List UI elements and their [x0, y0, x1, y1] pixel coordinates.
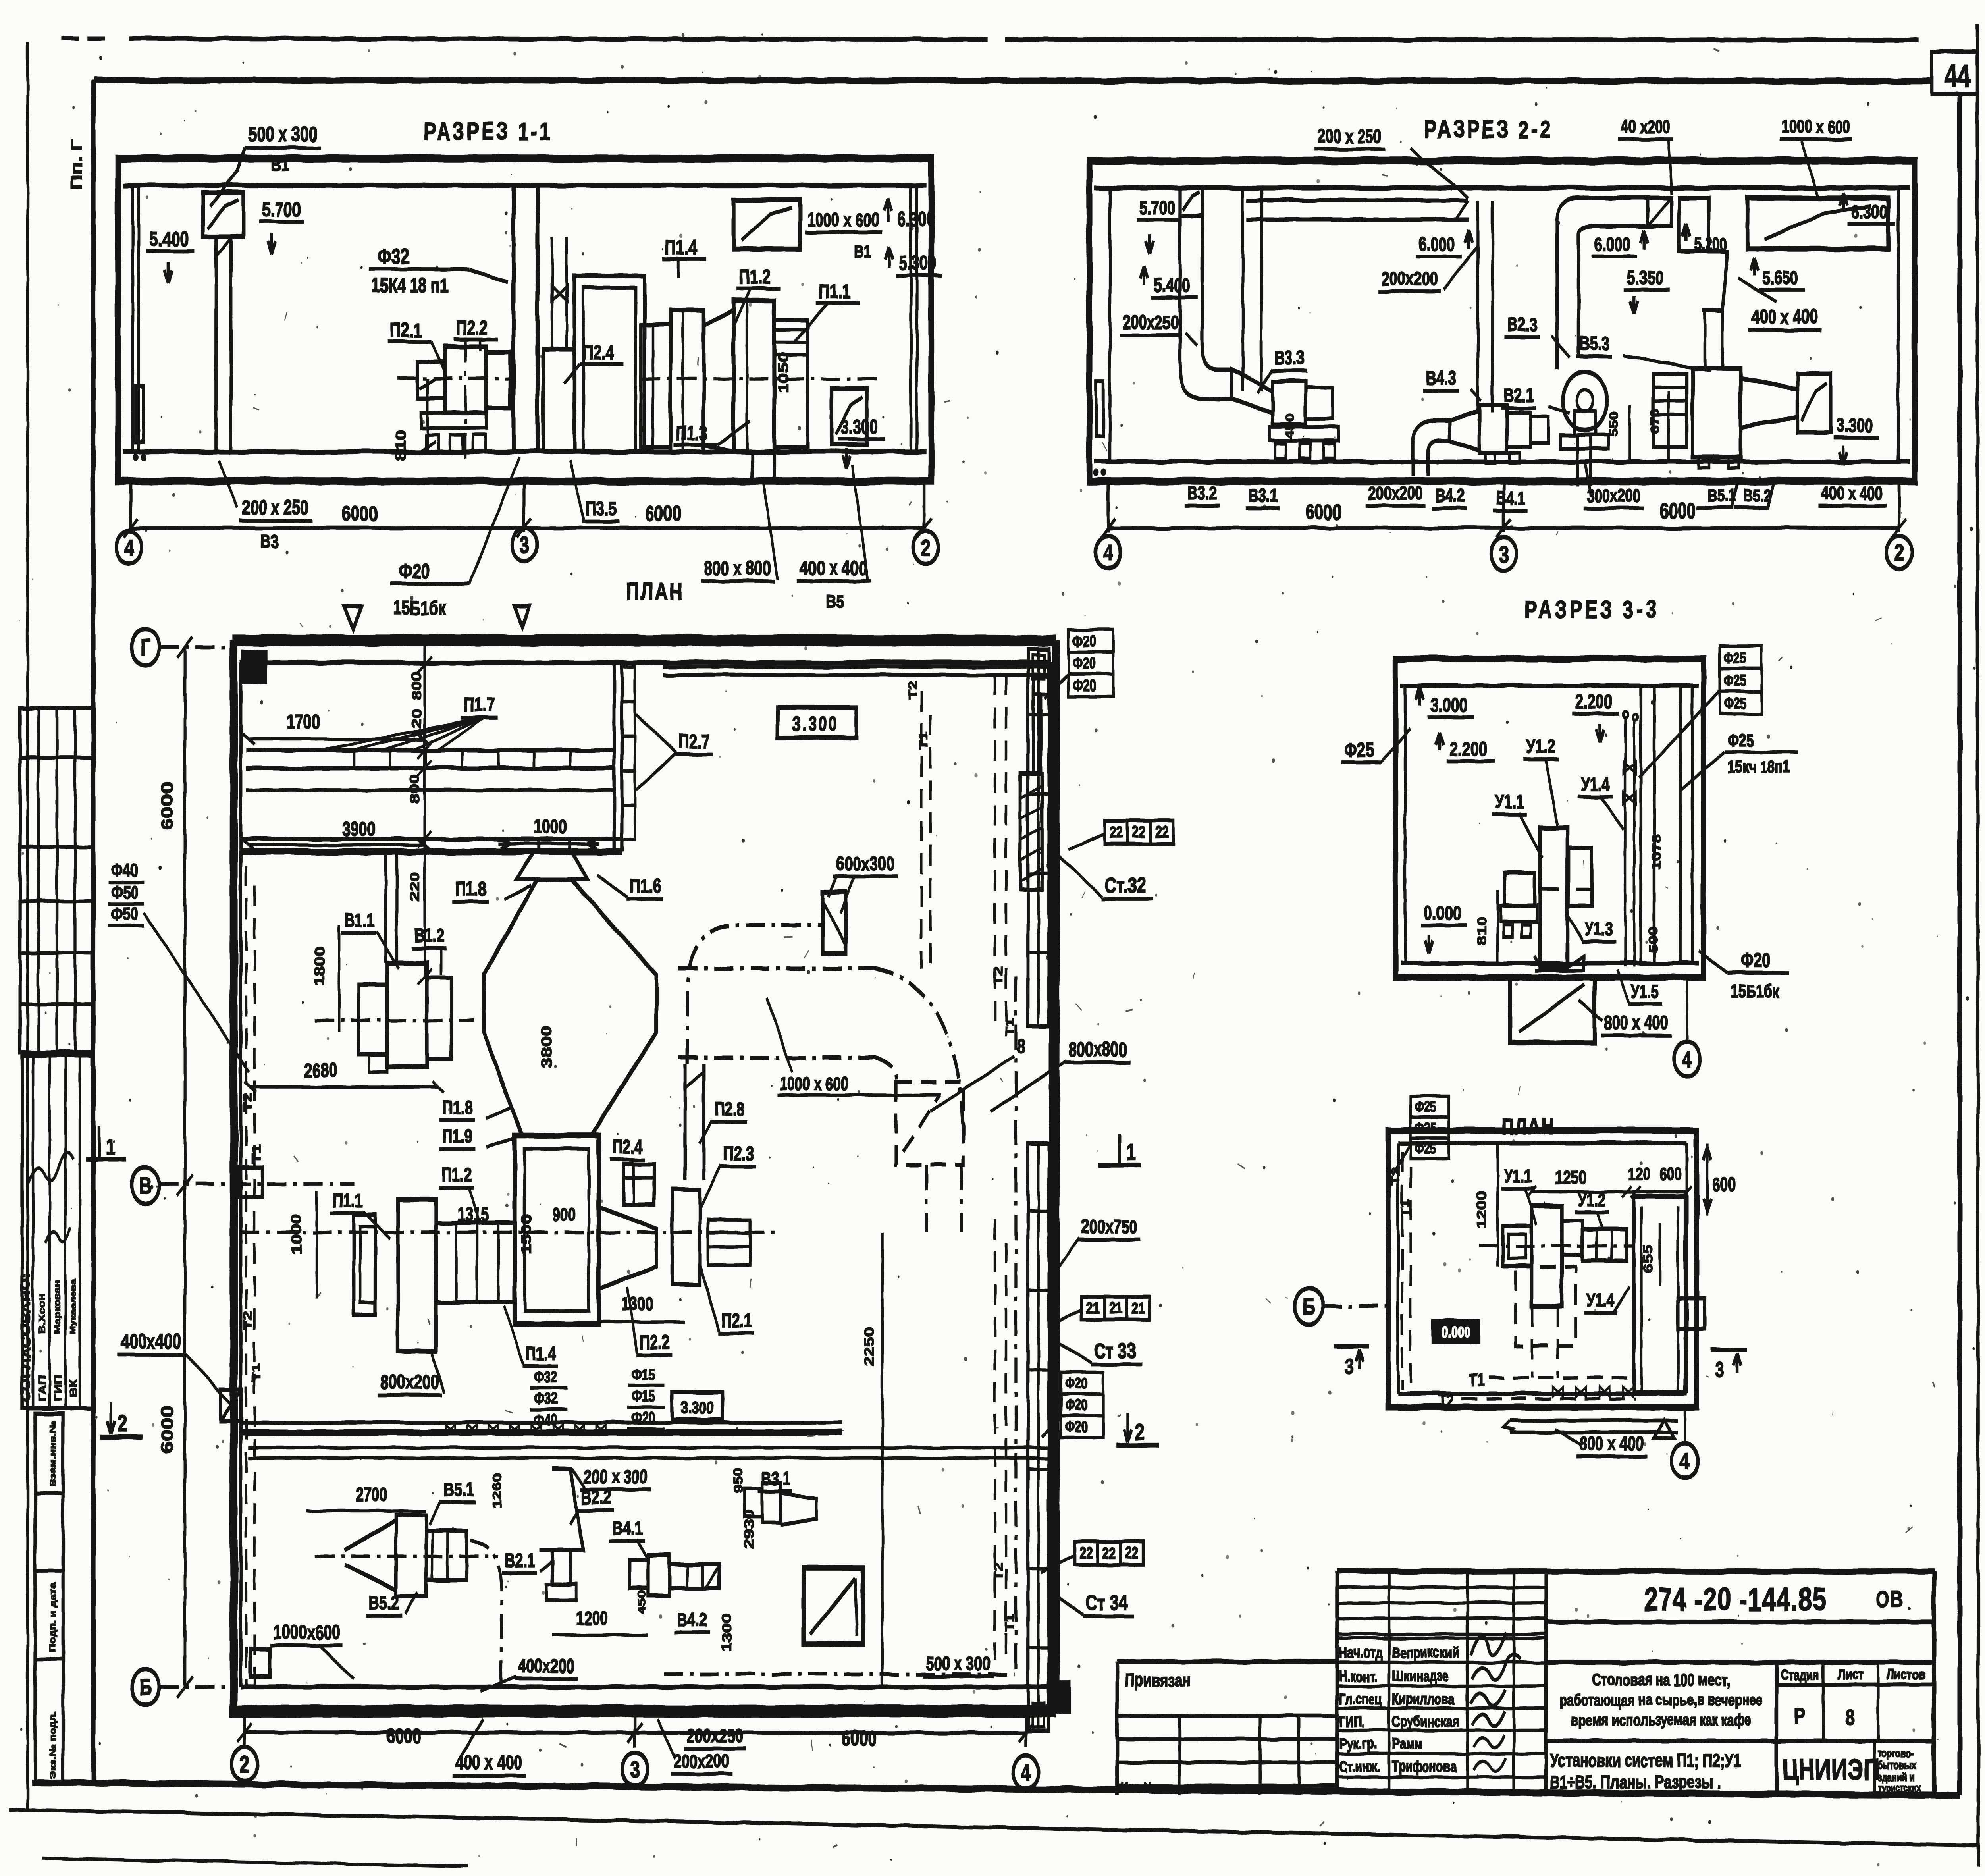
svg-text:Т1: Т1	[1469, 1371, 1484, 1390]
svg-text:200х250: 200х250	[687, 1725, 743, 1747]
svg-text:44: 44	[1944, 58, 1970, 93]
svg-text:4: 4	[1680, 1448, 1690, 1474]
svg-text:21: 21	[1109, 1299, 1122, 1317]
svg-text:22: 22	[1125, 1544, 1139, 1562]
svg-text:В3.1: В3.1	[761, 1468, 790, 1489]
svg-text:2.200: 2.200	[1575, 691, 1613, 713]
svg-text:Экз.№ подл.: Экз.№ подл.	[48, 1711, 58, 1779]
svg-text:В1.1: В1.1	[344, 910, 375, 931]
svg-text:3.300: 3.300	[1837, 415, 1873, 436]
svg-text:В4.1: В4.1	[612, 1518, 643, 1539]
svg-text:Подп. и дата: Подп. и дата	[48, 1582, 58, 1652]
svg-text:Столовая на 100 мест,: Столовая на 100 мест,	[1592, 1670, 1730, 1689]
svg-text:4: 4	[124, 535, 134, 561]
svg-text:П1.4: П1.4	[526, 1343, 556, 1364]
svg-text:В3.3: В3.3	[1274, 347, 1305, 369]
svg-text:8: 8	[1846, 1705, 1856, 1730]
svg-text:15Б1бк: 15Б1бк	[393, 597, 446, 619]
svg-text:П3.5: П3.5	[585, 498, 617, 520]
svg-text:РАЗРЕЗ 3-3: РАЗРЕЗ 3-3	[1524, 596, 1659, 623]
svg-text:1: 1	[106, 1134, 115, 1159]
svg-text:5.200: 5.200	[1694, 235, 1727, 255]
svg-text:400х400: 400х400	[121, 1330, 181, 1353]
svg-text:Рамм: Рамм	[1392, 1735, 1422, 1752]
svg-text:В5.3: В5.3	[1579, 333, 1610, 355]
svg-text:П1.8: П1.8	[442, 1097, 473, 1118]
svg-text:5.650: 5.650	[1762, 267, 1798, 289]
svg-text:15Б1бк: 15Б1бк	[1731, 981, 1779, 1001]
svg-text:РАЗРЕЗ 1-1: РАЗРЕЗ 1-1	[424, 118, 552, 145]
svg-text:Ф50: Ф50	[111, 904, 138, 924]
svg-text:Трифонова: Трифонова	[1392, 1758, 1456, 1775]
svg-text:П2.3: П2.3	[723, 1143, 754, 1165]
svg-text:6.300: 6.300	[897, 208, 935, 230]
svg-text:Ф20: Ф20	[1073, 654, 1096, 672]
svg-text:П1.1: П1.1	[819, 281, 850, 303]
svg-text:У1.4: У1.4	[1581, 773, 1610, 795]
svg-text:Т1: Т1	[917, 732, 930, 750]
svg-text:3: 3	[630, 1756, 640, 1782]
svg-text:1260: 1260	[490, 1473, 504, 1509]
svg-text:В1.2: В1.2	[414, 925, 445, 946]
svg-text:В.Хсон: В.Хсон	[37, 1293, 47, 1334]
svg-text:6000: 6000	[1660, 499, 1696, 523]
svg-text:6000: 6000	[1305, 501, 1341, 524]
svg-text:В2.1: В2.1	[1503, 385, 1534, 406]
svg-text:П2.7: П2.7	[678, 731, 710, 752]
svg-text:Б: Б	[139, 1674, 152, 1700]
svg-text:Т2: Т2	[1438, 1392, 1454, 1411]
svg-text:Ст.инж.: Ст.инж.	[1339, 1758, 1380, 1775]
svg-text:П2.2: П2.2	[456, 317, 488, 339]
svg-text:Т2: Т2	[992, 966, 1005, 985]
svg-text:У1.1: У1.1	[1504, 1166, 1532, 1186]
svg-text:400 х 400: 400 х 400	[455, 1752, 522, 1774]
svg-text:работающая на сырье,в вечернее: работающая на сырье,в вечернее	[1559, 1691, 1763, 1709]
svg-text:3900: 3900	[342, 818, 376, 840]
svg-text:бытовых: бытовых	[1877, 1759, 1916, 1771]
svg-text:400 x 400: 400 x 400	[800, 557, 867, 579]
svg-text:810: 810	[1474, 917, 1489, 945]
svg-text:Ф50: Ф50	[111, 882, 138, 902]
svg-text:500 х 300: 500 х 300	[926, 1653, 990, 1674]
svg-text:200х200: 200х200	[1368, 483, 1422, 503]
svg-text:Ф32: Ф32	[378, 245, 409, 269]
svg-text:Ф25: Ф25	[1724, 673, 1746, 689]
svg-text:1700: 1700	[287, 711, 320, 733]
svg-text:400х200: 400х200	[518, 1655, 574, 1677]
svg-text:600: 600	[1712, 1174, 1736, 1195]
svg-text:Б: Б	[1303, 1294, 1316, 1319]
svg-text:В4.3: В4.3	[1426, 367, 1457, 389]
svg-text:П2.1: П2.1	[390, 319, 422, 341]
svg-text:6000: 6000	[386, 1724, 421, 1748]
svg-text:900: 900	[552, 1204, 575, 1225]
svg-text:ПЛАН: ПЛАН	[1502, 1114, 1555, 1139]
svg-text:Установки систем П1; П2;У1: Установки систем П1; П2;У1	[1550, 1750, 1741, 1771]
svg-text:3: 3	[520, 532, 529, 558]
svg-text:200х250: 200х250	[1123, 312, 1179, 333]
svg-text:5.400: 5.400	[1154, 275, 1190, 296]
svg-text:Ф25: Ф25	[1724, 650, 1746, 667]
svg-text:810: 810	[393, 430, 409, 461]
svg-text:1300: 1300	[719, 1613, 734, 1652]
svg-text:1: 1	[1126, 1140, 1135, 1165]
svg-text:П1.1: П1.1	[333, 1190, 363, 1211]
svg-text:22: 22	[1102, 1544, 1116, 1562]
svg-text:П1.8: П1.8	[455, 878, 487, 900]
svg-text:600: 600	[1660, 1165, 1682, 1184]
svg-text:3.300: 3.300	[840, 416, 878, 438]
svg-text:РАЗРЕЗ 2-2: РАЗРЕЗ 2-2	[1424, 116, 1552, 143]
svg-text:В: В	[139, 1172, 152, 1198]
svg-text:200х200: 200х200	[1382, 268, 1438, 289]
svg-text:П1.7: П1.7	[464, 694, 495, 716]
svg-text:5.700: 5.700	[1139, 197, 1176, 219]
svg-text:1200: 1200	[1474, 1190, 1489, 1229]
svg-text:5.700: 5.700	[262, 198, 301, 221]
svg-text:Ст.32: Ст.32	[1105, 874, 1146, 898]
svg-text:2250: 2250	[862, 1327, 877, 1366]
svg-text:2680: 2680	[304, 1059, 337, 1081]
svg-text:В5.2: В5.2	[1744, 486, 1771, 505]
svg-text:Г: Г	[141, 634, 150, 660]
svg-text:22: 22	[1155, 823, 1169, 841]
svg-text:400 х 400: 400 х 400	[1751, 306, 1818, 328]
svg-text:У1.2: У1.2	[1578, 1190, 1606, 1210]
svg-text:800х200: 800х200	[381, 1371, 439, 1393]
svg-text:П1.6: П1.6	[629, 875, 661, 897]
svg-text:6.300: 6.300	[1851, 201, 1887, 223]
svg-text:274 -20 -144.85: 274 -20 -144.85	[1644, 1581, 1827, 1618]
svg-text:Т2: Т2	[1389, 1168, 1402, 1185]
svg-text:В2.1: В2.1	[505, 1550, 536, 1571]
svg-text:Срубинская: Срубинская	[1392, 1713, 1459, 1730]
svg-text:В5.1: В5.1	[443, 1479, 474, 1500]
svg-text:655: 655	[1640, 1245, 1655, 1273]
svg-text:зданий и: зданий и	[1877, 1771, 1914, 1783]
svg-text:0.000: 0.000	[1442, 1324, 1470, 1341]
svg-text:В3.2: В3.2	[1187, 483, 1216, 503]
svg-text:Ф20: Ф20	[399, 559, 430, 583]
svg-text:1000 x 600: 1000 x 600	[807, 209, 880, 231]
svg-text:Гл.спец: Гл.спец	[1339, 1691, 1382, 1708]
svg-text:4: 4	[1103, 540, 1113, 565]
svg-text:4: 4	[1682, 1046, 1692, 1072]
svg-text:Т2: Т2	[241, 1093, 254, 1112]
svg-text:В2.2: В2.2	[581, 1487, 612, 1508]
svg-text:0.000: 0.000	[1424, 903, 1461, 925]
svg-text:3: 3	[1499, 541, 1508, 567]
svg-text:П1.2: П1.2	[441, 1164, 472, 1186]
svg-text:Кириллова: Кириллова	[1392, 1691, 1455, 1708]
svg-text:Ф20: Ф20	[1741, 950, 1770, 972]
svg-text:П2.2: П2.2	[639, 1331, 670, 1353]
svg-text:Ст 34: Ст 34	[1086, 1591, 1128, 1615]
svg-text:Т2: Т2	[992, 1562, 1005, 1580]
svg-text:220: 220	[407, 872, 422, 901]
svg-text:ЦНИИЭП: ЦНИИЭП	[1782, 1753, 1880, 1785]
svg-text:В5: В5	[826, 592, 843, 612]
svg-text:200х750: 200х750	[1081, 1216, 1137, 1238]
svg-text:Ф40: Ф40	[111, 860, 138, 881]
svg-text:1000 х 600: 1000 х 600	[779, 1073, 848, 1094]
svg-text:П2.8: П2.8	[714, 1099, 745, 1120]
svg-text:Стадия: Стадия	[1781, 1666, 1819, 1683]
svg-text:1200: 1200	[576, 1608, 608, 1629]
svg-text:Ф25: Ф25	[1724, 695, 1746, 712]
svg-text:800 х 400: 800 х 400	[1604, 1012, 1668, 1033]
svg-text:Ф20: Ф20	[1073, 632, 1096, 650]
svg-text:3800: 3800	[539, 1026, 555, 1068]
svg-text:Ф32: Ф32	[534, 1390, 557, 1407]
svg-text:Маркован: Маркован	[53, 1280, 62, 1334]
svg-text:Пп. Г: Пп. Г	[67, 139, 85, 190]
svg-text:6000: 6000	[645, 502, 681, 526]
svg-text:Листов: Листов	[1887, 1666, 1925, 1683]
svg-text:У1.1: У1.1	[1495, 791, 1524, 813]
svg-text:В5.1: В5.1	[1707, 486, 1735, 505]
svg-text:Привязан: Привязан	[1125, 1670, 1191, 1691]
svg-text:В4.2: В4.2	[677, 1609, 707, 1631]
svg-text:П2.4: П2.4	[582, 342, 614, 364]
svg-text:Т2: Т2	[241, 1311, 254, 1330]
svg-text:Ф20: Ф20	[1066, 1419, 1088, 1436]
svg-text:500 x 300: 500 x 300	[248, 123, 317, 146]
svg-text:200х200: 200х200	[673, 1751, 729, 1772]
svg-text:Т2: Т2	[906, 680, 919, 699]
svg-text:Ф25: Ф25	[1728, 731, 1754, 751]
svg-text:3.300: 3.300	[681, 1398, 714, 1418]
svg-text:120: 120	[410, 709, 424, 738]
svg-text:450: 450	[636, 1591, 648, 1614]
svg-text:5.350: 5.350	[1627, 267, 1663, 289]
svg-text:1000: 1000	[289, 1214, 304, 1255]
svg-text:6000: 6000	[158, 1406, 176, 1453]
svg-text:6.000: 6.000	[1418, 234, 1455, 255]
svg-text:600х300: 600х300	[836, 853, 894, 875]
svg-text:В3: В3	[260, 531, 278, 552]
svg-text:Ф20: Ф20	[1073, 677, 1096, 694]
svg-text:2: 2	[118, 1411, 127, 1436]
svg-text:500: 500	[1646, 926, 1660, 953]
svg-text:В3.1: В3.1	[1249, 485, 1278, 506]
svg-text:время используемая как кафе: время используемая как кафе	[1571, 1711, 1751, 1729]
svg-text:У1.2: У1.2	[1526, 736, 1555, 757]
svg-text:22: 22	[1110, 823, 1123, 841]
svg-text:У1.4: У1.4	[1586, 1290, 1614, 1310]
svg-text:15кч 18п1: 15кч 18п1	[1728, 758, 1790, 777]
svg-text:450: 450	[1284, 414, 1297, 439]
svg-text:2700: 2700	[356, 1484, 388, 1505]
svg-text:У1.3: У1.3	[1585, 919, 1613, 939]
svg-text:1500: 1500	[519, 1214, 534, 1255]
svg-text:2.200: 2.200	[1449, 738, 1487, 760]
svg-text:торгово-: торгово-	[1877, 1747, 1913, 1759]
svg-text:6000: 6000	[158, 782, 176, 830]
svg-text:Р: Р	[1794, 1703, 1805, 1728]
svg-text:Ст 33: Ст 33	[1094, 1339, 1136, 1363]
svg-text:22: 22	[1132, 823, 1146, 841]
svg-text:В4.2: В4.2	[1435, 485, 1464, 506]
svg-text:Ф20: Ф20	[1066, 1375, 1088, 1392]
svg-text:2: 2	[1135, 1419, 1145, 1444]
svg-text:5.300: 5.300	[899, 253, 937, 274]
svg-text:ПЛАН: ПЛАН	[626, 578, 684, 605]
svg-text:40 х200: 40 х200	[1621, 116, 1671, 137]
svg-text:800х800: 800х800	[1068, 1039, 1127, 1060]
svg-text:В4.1: В4.1	[1496, 488, 1525, 508]
svg-text:800: 800	[410, 671, 424, 700]
svg-text:Т1: Т1	[1003, 1613, 1016, 1632]
svg-text:550: 550	[1608, 412, 1621, 437]
svg-text:Ф15: Ф15	[632, 1366, 655, 1384]
svg-text:Ф25: Ф25	[1415, 1099, 1436, 1115]
svg-text:ОВ: ОВ	[1876, 1586, 1904, 1612]
svg-text:1050: 1050	[776, 353, 791, 393]
svg-text:800: 800	[407, 775, 422, 804]
svg-text:туристских: туристских	[1877, 1782, 1921, 1793]
svg-text:У1.5: У1.5	[1631, 981, 1659, 1001]
svg-text:950: 950	[731, 1467, 745, 1494]
svg-text:В1: В1	[854, 242, 871, 262]
svg-text:5.400: 5.400	[149, 228, 188, 251]
svg-text:120: 120	[1628, 1165, 1650, 1184]
svg-text:Т1: Т1	[250, 1145, 263, 1163]
svg-text:670: 670	[1649, 409, 1662, 434]
svg-text:800 х 400: 800 х 400	[1580, 1433, 1644, 1454]
svg-text:2: 2	[240, 1751, 249, 1777]
svg-text:Т1: Т1	[1399, 1199, 1412, 1217]
svg-text:Ф20: Ф20	[1066, 1397, 1088, 1414]
svg-text:П1.3: П1.3	[676, 422, 707, 444]
svg-text:Ф25: Ф25	[1345, 739, 1374, 761]
svg-text:8: 8	[1017, 1035, 1025, 1057]
svg-text:22: 22	[1079, 1544, 1093, 1562]
svg-text:1000 х 600: 1000 х 600	[1781, 116, 1850, 137]
svg-text:3.000: 3.000	[1430, 694, 1468, 716]
svg-text:400 х 400: 400 х 400	[1821, 483, 1883, 503]
svg-text:3.300: 3.300	[792, 713, 839, 735]
svg-text:ГИП: ГИП	[52, 1375, 64, 1402]
svg-text:Ф32: Ф32	[534, 1368, 557, 1386]
svg-text:200 х 250: 200 х 250	[1318, 126, 1382, 147]
svg-text:1250: 1250	[1555, 1167, 1587, 1188]
svg-text:Рук.гр.: Рук.гр.	[1339, 1735, 1377, 1752]
svg-text:1000: 1000	[534, 816, 567, 837]
svg-text:1300: 1300	[621, 1293, 653, 1315]
svg-text:4: 4	[1021, 1759, 1031, 1785]
svg-text:200 х 300: 200 х 300	[584, 1466, 648, 1488]
svg-text:Взам.инв.№: Взам.инв.№	[48, 1420, 58, 1487]
svg-text:300х200: 300х200	[1587, 485, 1640, 506]
svg-text:2: 2	[921, 535, 931, 561]
svg-text:6000: 6000	[341, 502, 378, 526]
svg-text:21: 21	[1132, 1299, 1145, 1317]
svg-text:Нач.отд: Нач.отд	[1339, 1645, 1382, 1661]
svg-text:ГАП: ГАП	[37, 1375, 48, 1402]
svg-text:Н.конт.: Н.конт.	[1339, 1668, 1378, 1685]
svg-text:В1÷В5. Планы. Разрезы .: В1÷В5. Планы. Разрезы .	[1550, 1772, 1721, 1792]
svg-text:Шкинадзе: Шкинадзе	[1392, 1668, 1449, 1685]
svg-text:Т1: Т1	[1003, 1018, 1016, 1036]
svg-text:Т1: Т1	[250, 1363, 263, 1382]
svg-text:П1.4: П1.4	[665, 237, 697, 258]
svg-text:П2.1: П2.1	[721, 1310, 752, 1331]
svg-text:21: 21	[1086, 1299, 1100, 1317]
svg-text:1078: 1078	[1650, 834, 1663, 870]
svg-text:СОГЛАСОВАНО:: СОГЛАСОВАНО:	[19, 1273, 33, 1402]
svg-text:2: 2	[1894, 540, 1904, 565]
svg-text:В5.2: В5.2	[369, 1592, 399, 1614]
svg-text:1315: 1315	[457, 1204, 489, 1225]
svg-text:Веприкский: Веприкский	[1392, 1645, 1459, 1661]
svg-text:Мукаалева: Мукаалева	[69, 1279, 77, 1334]
svg-text:Лист: Лист	[1838, 1666, 1863, 1683]
svg-text:1800: 1800	[312, 946, 327, 987]
svg-text:200 x 250: 200 x 250	[242, 497, 308, 519]
svg-text:В1: В1	[271, 154, 289, 175]
svg-text:6.000: 6.000	[1594, 234, 1630, 255]
svg-text:1000х600: 1000х600	[274, 1621, 340, 1643]
svg-text:ВК: ВК	[68, 1379, 79, 1398]
svg-text:П1.9: П1.9	[442, 1126, 473, 1147]
svg-text:3: 3	[1715, 1358, 1724, 1382]
svg-text:800 x 800: 800 x 800	[704, 557, 771, 579]
svg-text:П2.4: П2.4	[612, 1136, 643, 1158]
svg-text:П1.2: П1.2	[739, 266, 771, 288]
svg-text:Ф15: Ф15	[632, 1387, 655, 1405]
svg-text:В2.3: В2.3	[1507, 314, 1538, 335]
svg-text:6000: 6000	[842, 1727, 877, 1750]
svg-text:15К4 18 п1: 15К4 18 п1	[372, 275, 448, 297]
svg-text:3: 3	[1345, 1355, 1354, 1379]
svg-text:Инв.№: Инв.№	[1121, 1780, 1155, 1795]
svg-text:ГИП: ГИП	[1339, 1713, 1362, 1730]
